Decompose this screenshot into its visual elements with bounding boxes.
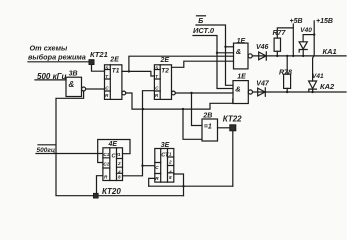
- svg-text:V47: V47: [256, 81, 270, 88]
- svg-text:1: 1: [118, 152, 121, 157]
- svg-text:1: 1: [169, 152, 172, 157]
- svg-text:V41: V41: [312, 73, 324, 80]
- svg-text:4Е: 4Е: [108, 141, 118, 148]
- svg-text:С2: С2: [103, 162, 109, 167]
- svg-text:От схемы: От схемы: [30, 43, 68, 52]
- svg-text:КТ21: КТ21: [90, 50, 108, 59]
- svg-text:R: R: [105, 93, 109, 98]
- svg-text:R78: R78: [279, 70, 292, 77]
- svg-text:2В: 2В: [202, 112, 212, 119]
- svg-text:С: С: [155, 165, 159, 170]
- svg-text:C: C: [105, 85, 109, 90]
- svg-text:500гц: 500гц: [37, 147, 56, 154]
- svg-text:C: C: [155, 85, 159, 90]
- svg-text:T: T: [105, 74, 109, 79]
- svg-text:4: 4: [168, 169, 172, 174]
- svg-text:Т1: Т1: [112, 67, 120, 74]
- svg-text:2: 2: [168, 160, 172, 165]
- svg-text:+15В: +15В: [316, 18, 333, 25]
- svg-text:&: &: [236, 47, 241, 56]
- svg-text:T: T: [155, 74, 159, 79]
- svg-text:1Е: 1Е: [237, 74, 246, 81]
- svg-text:=1: =1: [204, 123, 212, 130]
- svg-text:Б: Б: [198, 18, 203, 25]
- svg-text:ИСТ.0: ИСТ.0: [193, 26, 215, 35]
- svg-text:&: &: [235, 85, 240, 94]
- svg-text:Т2: Т2: [161, 67, 169, 74]
- svg-text:V40: V40: [300, 27, 312, 34]
- svg-text:3В: 3В: [69, 70, 78, 77]
- svg-text:2Е: 2Е: [109, 57, 119, 64]
- svg-text:выбора режима: выбора режима: [28, 52, 86, 61]
- svg-text:V46: V46: [256, 44, 269, 51]
- svg-text:3Е: 3Е: [161, 142, 170, 149]
- svg-text:R: R: [104, 175, 108, 180]
- svg-text:8: 8: [118, 175, 121, 180]
- svg-text:2Е: 2Е: [160, 57, 170, 64]
- svg-text:R: R: [155, 176, 159, 181]
- svg-text:КТ20: КТ20: [102, 187, 121, 196]
- svg-text:СТ: СТ: [161, 153, 169, 159]
- svg-text:8: 8: [169, 175, 172, 180]
- svg-text:R77: R77: [273, 30, 287, 37]
- svg-text:&: &: [69, 80, 75, 89]
- svg-text:2: 2: [117, 161, 121, 166]
- svg-text:КТ22: КТ22: [223, 114, 242, 123]
- svg-text:С1: С1: [103, 152, 109, 157]
- svg-text:КА1: КА1: [323, 47, 337, 56]
- svg-text:R: R: [155, 93, 159, 98]
- svg-text:+5В: +5В: [290, 18, 303, 25]
- svg-text:КА2: КА2: [320, 82, 335, 91]
- svg-text:500 кГц: 500 кГц: [37, 72, 67, 81]
- svg-text:1Е: 1Е: [237, 38, 246, 45]
